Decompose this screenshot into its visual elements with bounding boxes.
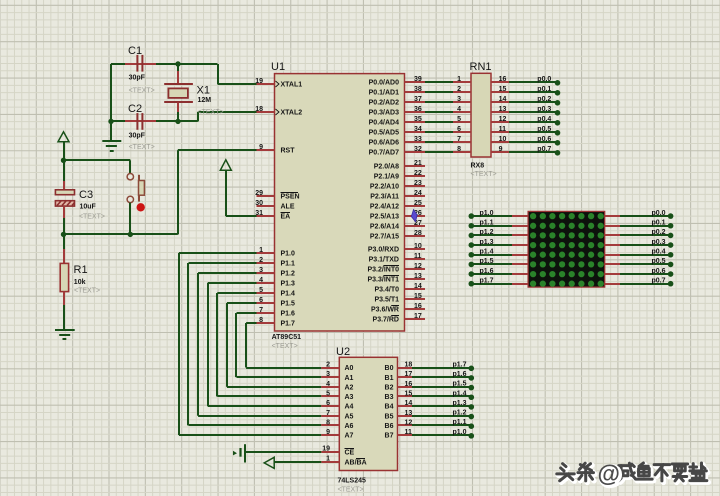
svg-text:4: 4	[457, 106, 461, 113]
svg-text:74LS245: 74LS245	[338, 478, 367, 485]
RN1 pin 14 net p0.2	[491, 96, 560, 106]
U1 pin 14 P3.4/T0	[374, 283, 425, 294]
svg-text:14: 14	[499, 96, 507, 103]
U1 pin 3 P1.2	[257, 267, 296, 278]
svg-text:p0.6: p0.6	[651, 268, 665, 275]
matrix row pin net p1.4	[469, 249, 529, 258]
U2 pin 19 CE	[321, 446, 354, 457]
matrix column pin net p0.0	[605, 210, 674, 219]
svg-text:16: 16	[414, 303, 422, 310]
svg-text:32: 32	[414, 146, 422, 153]
wire P0.0 U1 to RN1 pin 1	[425, 76, 471, 83]
svg-text:U1: U1	[271, 61, 285, 73]
svg-text:p1.4: p1.4	[452, 390, 466, 397]
svg-text:A7: A7	[345, 433, 354, 440]
svg-text:<TEXT>: <TEXT>	[129, 144, 155, 151]
svg-text:p0.7: p0.7	[537, 146, 551, 153]
U1 pin 30 ALE	[255, 200, 295, 211]
svg-text:1: 1	[457, 76, 461, 83]
U1 pin 8 P1.7	[257, 317, 296, 328]
svg-text:6: 6	[457, 126, 461, 133]
U1 pin 9 RST	[257, 144, 296, 155]
svg-text:P3.0/RXD: P3.0/RXD	[368, 247, 399, 254]
RN1 pin 12 net p0.4	[491, 116, 560, 126]
ground (R1)	[55, 305, 75, 339]
svg-text:XTAL1: XTAL1	[281, 82, 303, 89]
svg-text:35: 35	[414, 116, 422, 123]
U1 pin 26 P2.5/A13	[370, 210, 425, 221]
U1 pin 24 P2.3/A11	[370, 190, 425, 201]
svg-text:P2.1/A9: P2.1/A9	[374, 174, 399, 181]
svg-text:2: 2	[326, 362, 330, 369]
svg-text:p0.2: p0.2	[651, 229, 665, 236]
U1 pin 7 P1.6	[257, 307, 296, 318]
svg-text:2: 2	[457, 86, 461, 93]
matrix row pin net p1.6	[469, 268, 529, 277]
U2 pin 9 A7	[321, 429, 353, 440]
svg-text:<TEXT>: <TEXT>	[198, 109, 224, 116]
svg-text:P2.7/A15: P2.7/A15	[370, 234, 399, 241]
U2 pin 12 B6 net p1.1	[385, 419, 475, 430]
svg-text:B5: B5	[385, 413, 394, 420]
junction C2 left	[108, 119, 113, 124]
svg-text:p0.3: p0.3	[651, 239, 665, 246]
svg-text:10: 10	[414, 243, 422, 250]
svg-text:21: 21	[414, 160, 422, 167]
junction C1-X1	[175, 61, 180, 66]
svg-text:14: 14	[414, 283, 422, 290]
U2 pin 13 B5 net p1.2	[385, 410, 475, 421]
matrix column pin net p0.6	[605, 268, 674, 277]
wire P0.4 U1 to RN1 pin 5	[425, 116, 471, 123]
svg-text:p1.0: p1.0	[452, 429, 466, 436]
U2 pin 4 A2	[321, 381, 353, 392]
svg-text:25: 25	[414, 200, 422, 207]
svg-text:5: 5	[259, 287, 263, 294]
svg-text:12: 12	[414, 263, 422, 270]
svg-text:17: 17	[405, 371, 413, 378]
svg-text:p0.5: p0.5	[537, 126, 551, 133]
svg-text:3: 3	[326, 371, 330, 378]
svg-text:23: 23	[414, 180, 422, 187]
U2 pin 2 A0	[321, 362, 353, 373]
U1 pin 35 P0.4/AD4	[369, 116, 425, 127]
junction reset top	[61, 158, 66, 163]
matrix row pin net p1.7	[469, 278, 529, 287]
svg-text:28: 28	[414, 230, 422, 237]
svg-text:16: 16	[499, 76, 507, 83]
svg-text:P3.7/RD: P3.7/RD	[373, 317, 399, 324]
svg-text:CE: CE	[345, 450, 355, 457]
svg-text:15: 15	[405, 390, 413, 397]
svg-text:P3.1/TXD: P3.1/TXD	[369, 257, 399, 264]
svg-text:9: 9	[499, 146, 503, 153]
svg-text:P2.6/A14: P2.6/A14	[370, 224, 399, 231]
svg-text:P1.5: P1.5	[281, 301, 296, 308]
U2 pin 11 B7 net p1.0	[385, 429, 475, 440]
resistor R1	[60, 234, 100, 329]
svg-text:P2.3/A11: P2.3/A11	[370, 194, 399, 201]
U1 pin 27 P2.6/A14	[370, 220, 425, 231]
wire P0.7 U1 to RN1 pin 8	[425, 146, 471, 153]
capacitor C1	[128, 45, 155, 95]
svg-text:13: 13	[499, 106, 507, 113]
svg-text:R1: R1	[74, 264, 88, 276]
svg-text:p0.6: p0.6	[537, 136, 551, 143]
svg-text:A0: A0	[345, 365, 354, 372]
wire C2 net (XTAL2)	[111, 112, 257, 121]
watermark 头条 @咸鱼不要盐	[557, 461, 709, 489]
wire P1.6 to A1	[236, 313, 321, 377]
svg-text:24: 24	[414, 190, 422, 197]
svg-text:29: 29	[255, 190, 263, 197]
power terminal (CE)	[233, 444, 321, 462]
svg-text:B3: B3	[385, 394, 394, 401]
wire P1.2 to A5	[198, 273, 321, 416]
svg-text:33: 33	[414, 136, 422, 143]
svg-text:7: 7	[457, 136, 461, 143]
svg-text:37: 37	[414, 96, 422, 103]
U1 pin 32 P0.7/AD7	[369, 146, 425, 157]
svg-text:U2: U2	[336, 346, 350, 358]
U1 pin 22 P2.1/A9	[374, 170, 425, 181]
svg-text:p1.3: p1.3	[452, 400, 466, 407]
svg-text:C2: C2	[128, 103, 142, 115]
U2 pin 6 A4	[321, 400, 353, 411]
U1 pin 28 P2.7/A15	[370, 230, 425, 241]
svg-text:30pF: 30pF	[129, 75, 146, 82]
svg-text:10k: 10k	[74, 279, 86, 286]
svg-text:ALE: ALE	[281, 204, 295, 211]
svg-text:B4: B4	[385, 404, 394, 411]
svg-text:AB/BA: AB/BA	[345, 460, 367, 467]
svg-text:P1.6: P1.6	[281, 311, 296, 318]
junction button bottom	[128, 232, 133, 237]
svg-text:P0.6/AD6: P0.6/AD6	[369, 140, 399, 147]
svg-text:7: 7	[259, 307, 263, 314]
svg-text:p0.5: p0.5	[651, 258, 665, 265]
svg-text:P0.4/AD4: P0.4/AD4	[369, 120, 399, 127]
matrix column pin net p0.7	[605, 278, 674, 287]
svg-text:8: 8	[326, 419, 330, 426]
svg-text:13: 13	[405, 410, 413, 417]
U1 pin 12 P3.2/INT0	[367, 263, 425, 274]
U1 pin 16 P3.6/WR	[371, 303, 425, 314]
wire P1.4 to A3	[217, 293, 321, 396]
svg-text:p1.5: p1.5	[480, 258, 494, 265]
capacitor C3	[55, 181, 105, 221]
svg-text:P3.3/INT1: P3.3/INT1	[367, 277, 399, 284]
matrix column pin net p0.1	[605, 220, 674, 229]
svg-text:<TEXT>: <TEXT>	[129, 88, 155, 95]
svg-text:2: 2	[259, 257, 263, 264]
svg-text:4: 4	[259, 277, 263, 284]
U1 pin 34 P0.5/AD5	[369, 126, 425, 137]
wire P1.7 to A0	[246, 323, 321, 368]
svg-text:p1.4: p1.4	[480, 249, 494, 256]
svg-text:36: 36	[414, 106, 422, 113]
U1 pin 25 P2.4/A12	[370, 200, 425, 211]
svg-text:A4: A4	[345, 404, 354, 411]
svg-text:A5: A5	[345, 413, 354, 420]
svg-text:P1.4: P1.4	[281, 291, 296, 298]
push button (reset)	[127, 160, 145, 234]
matrix column pin net p0.4	[605, 249, 674, 258]
svg-text:p1.6: p1.6	[452, 371, 466, 378]
U2 pin 15 B3 net p1.4	[385, 390, 475, 401]
RN1 pin 9 net p0.7	[491, 146, 560, 156]
U1 pin 19 XTAL1	[255, 78, 302, 89]
RN1 pin 15 net p0.1	[491, 86, 560, 96]
svg-text:B7: B7	[385, 433, 394, 440]
U1 pin 13 P3.3/INT1	[367, 273, 425, 284]
svg-text:4: 4	[326, 381, 330, 388]
U1 pin 37 P0.2/AD2	[369, 96, 425, 107]
wire P1.0 to A7	[179, 253, 321, 435]
crystal X1	[164, 64, 223, 121]
matrix row pin net p1.0	[469, 210, 529, 219]
svg-text:P1.0: P1.0	[281, 251, 296, 258]
U2 pin 3 A1	[321, 371, 353, 382]
svg-text:39: 39	[414, 76, 422, 83]
svg-text:EA: EA	[281, 214, 291, 221]
svg-text:p1.6: p1.6	[480, 268, 494, 275]
svg-text:18: 18	[405, 362, 413, 369]
wire P0.6 U1 to RN1 pin 7	[425, 136, 471, 143]
svg-text:A6: A6	[345, 423, 354, 430]
svg-text:RN1: RN1	[470, 61, 492, 73]
svg-text:11: 11	[414, 253, 422, 260]
U1 pin 31 EA	[255, 210, 290, 221]
svg-text:30pF: 30pF	[129, 132, 146, 139]
svg-text:P2.5/A13: P2.5/A13	[370, 214, 399, 221]
svg-text:B1: B1	[385, 375, 394, 382]
svg-text:9: 9	[326, 429, 330, 436]
matrix row pin net p1.1	[469, 220, 529, 229]
svg-text:B6: B6	[385, 423, 394, 430]
RN1 pin 10 net p0.6	[491, 136, 560, 146]
svg-text:10uF: 10uF	[80, 203, 97, 210]
svg-text:p1.1: p1.1	[452, 419, 466, 426]
svg-text:P3.4/T0: P3.4/T0	[374, 287, 399, 294]
svg-text:15: 15	[499, 86, 507, 93]
svg-text:19: 19	[322, 446, 330, 453]
svg-text:9: 9	[259, 144, 263, 151]
svg-text:p0.1: p0.1	[651, 220, 665, 227]
wire P0.5 U1 to RN1 pin 6	[425, 126, 471, 133]
svg-text:22: 22	[414, 170, 422, 177]
svg-text:<TEXT>: <TEXT>	[79, 214, 105, 221]
svg-text:p1.0: p1.0	[480, 210, 494, 217]
svg-text:RST: RST	[281, 148, 296, 155]
svg-text:p1.3: p1.3	[480, 239, 494, 246]
svg-text:11: 11	[405, 429, 413, 436]
svg-text:30: 30	[255, 200, 263, 207]
U1 clock input marks	[276, 81, 280, 115]
RN1 pin 16 net p0.0	[491, 76, 560, 86]
ground (oscillator)	[102, 121, 121, 151]
svg-text:11: 11	[499, 126, 507, 133]
svg-text:p0.3: p0.3	[537, 106, 551, 113]
svg-text:P3.6/WR: P3.6/WR	[371, 307, 399, 314]
svg-text:PSEN: PSEN	[281, 194, 300, 201]
capacitor C2	[128, 103, 155, 151]
svg-text:p0.4: p0.4	[537, 116, 551, 123]
U1 pin 39 P0.0/AD0	[369, 76, 425, 87]
svg-text:p0.0: p0.0	[651, 210, 665, 217]
svg-text:7: 7	[326, 410, 330, 417]
svg-text:A2: A2	[345, 384, 354, 391]
svg-text:<TEXT>: <TEXT>	[338, 487, 364, 494]
U1 pin 1 P1.0	[257, 247, 296, 258]
svg-text:<TEXT>: <TEXT>	[272, 343, 298, 350]
svg-text:<TEXT>: <TEXT>	[74, 287, 100, 294]
svg-text:5: 5	[457, 116, 461, 123]
U1 pin 33 P0.6/AD6	[369, 136, 425, 147]
U2 pin 7 A5	[321, 410, 353, 421]
U2 pin 18 B0 net p1.7	[385, 361, 475, 372]
LED matrix body	[528, 211, 605, 287]
svg-text:6: 6	[259, 297, 263, 304]
svg-text:A1: A1	[345, 375, 354, 382]
svg-text:p1.1: p1.1	[480, 220, 494, 227]
svg-text:12: 12	[405, 419, 413, 426]
svg-text:P0.0/AD0: P0.0/AD0	[369, 80, 399, 87]
svg-text:p0.2: p0.2	[537, 96, 551, 103]
svg-text:P2.2/A10: P2.2/A10	[370, 184, 399, 191]
U2 pin 1 AB/BA	[321, 456, 366, 467]
svg-text:P0.1/AD1: P0.1/AD1	[369, 90, 399, 97]
svg-text:P1.3: P1.3	[281, 281, 296, 288]
svg-text:p1.5: p1.5	[452, 381, 466, 388]
U1 pin 5 P1.4	[257, 287, 296, 298]
svg-text:3: 3	[259, 267, 263, 274]
svg-text:p1.7: p1.7	[452, 361, 466, 368]
U2 pin 14 B4 net p1.3	[385, 400, 475, 411]
svg-text:p1.2: p1.2	[480, 229, 494, 236]
matrix column pin net p0.3	[605, 239, 674, 248]
svg-text:19: 19	[255, 78, 263, 85]
svg-text:18: 18	[255, 106, 263, 113]
svg-text:A3: A3	[345, 394, 354, 401]
U2 pin 17 B1 net p1.6	[385, 371, 475, 382]
matrix row pin net p1.2	[469, 229, 529, 238]
svg-text:P0.3/AD3: P0.3/AD3	[369, 110, 399, 117]
svg-text:1: 1	[326, 456, 330, 463]
svg-text:AT89C51: AT89C51	[272, 334, 302, 341]
svg-text:8: 8	[259, 317, 263, 324]
svg-text:1: 1	[259, 247, 263, 254]
svg-text:34: 34	[414, 126, 422, 133]
svg-text:31: 31	[255, 210, 263, 217]
IC U2 74LS245 body	[336, 346, 398, 494]
svg-text:5: 5	[326, 390, 330, 397]
RN1 pin 11 net p0.5	[491, 126, 560, 136]
matrix column pin net p0.5	[605, 258, 674, 267]
wire P0.1 U1 to RN1 pin 2	[425, 86, 471, 93]
IC U1 AT89C51 body	[271, 61, 405, 350]
U1 pin 23 P2.2/A10	[370, 180, 425, 191]
U2 pin 5 A3	[321, 390, 353, 401]
wire C1 net (XTAL1)	[111, 64, 257, 121]
U1 pin 18 XTAL2	[255, 106, 302, 117]
svg-text:10: 10	[499, 136, 507, 143]
svg-text:P1.1: P1.1	[281, 261, 296, 268]
mouse cursor artifact	[411, 210, 417, 222]
wire P0.3 U1 to RN1 pin 4	[425, 106, 471, 113]
wire P1.3 to A4	[208, 283, 322, 406]
svg-text:P2.0/A8: P2.0/A8	[374, 164, 399, 171]
svg-text:15: 15	[414, 293, 422, 300]
svg-text:P0.2/AD2: P0.2/AD2	[369, 100, 399, 107]
svg-text:B0: B0	[385, 365, 394, 372]
U1 pin 36 P0.3/AD3	[369, 106, 425, 117]
power terminal VCC (reset)	[58, 132, 69, 161]
svg-text:@: @	[598, 461, 620, 487]
U1 pin 10 P3.0/RXD	[368, 243, 425, 254]
svg-text:12: 12	[499, 116, 507, 123]
wire P0.2 U1 to RN1 pin 3	[425, 96, 471, 103]
matrix row pin net p1.3	[469, 239, 529, 248]
wire reset node bottom	[64, 150, 257, 234]
svg-text:<TEXT>: <TEXT>	[471, 171, 497, 178]
U2 pin 16 B2 net p1.5	[385, 381, 475, 392]
svg-text:XTAL2: XTAL2	[281, 110, 303, 117]
svg-text:X1: X1	[197, 85, 210, 97]
wire P1.5 to A2	[227, 303, 321, 387]
svg-text:RX8: RX8	[471, 163, 485, 170]
svg-text:P0.7/AD7: P0.7/AD7	[369, 150, 399, 157]
svg-text:C1: C1	[128, 45, 142, 57]
svg-text:p0.7: p0.7	[651, 278, 665, 285]
RN1 pin 13 net p0.3	[491, 106, 560, 116]
svg-text:38: 38	[414, 86, 422, 93]
junction reset bottom-left	[61, 232, 66, 237]
svg-text:p0.0: p0.0	[537, 76, 551, 83]
svg-text:P3.5/T1: P3.5/T1	[374, 297, 399, 304]
svg-text:p0.1: p0.1	[537, 86, 551, 93]
power terminal VCC (EA)	[220, 160, 256, 216]
U1 pin 38 P0.1/AD1	[369, 86, 425, 97]
U1 pin 11 P3.1/TXD	[369, 253, 425, 264]
U1 pin 6 P1.5	[257, 297, 296, 308]
svg-text:P1.7: P1.7	[281, 321, 296, 328]
U1 pin 21 P2.0/A8	[374, 160, 425, 171]
matrix row pin net p1.5	[469, 258, 529, 267]
matrix column pin net p0.2	[605, 229, 674, 238]
svg-text:14: 14	[405, 400, 413, 407]
resistor network RN1 body	[470, 61, 497, 178]
svg-text:3: 3	[457, 96, 461, 103]
U2 pin 8 A6	[321, 419, 353, 430]
svg-text:p1.7: p1.7	[480, 278, 494, 285]
svg-text:17: 17	[414, 313, 422, 320]
U1 pin 2 P1.1	[257, 257, 296, 268]
svg-text:16: 16	[405, 381, 413, 388]
U1 pin 15 P3.5/T1	[374, 293, 425, 304]
svg-text:B2: B2	[385, 384, 394, 391]
svg-text:C3: C3	[79, 189, 93, 201]
direction arrow terminal (AB/BA)	[264, 457, 321, 468]
svg-text:P2.4/A12: P2.4/A12	[370, 204, 399, 211]
U1 pin 17 P3.7/RD	[373, 313, 425, 324]
svg-text:6: 6	[326, 400, 330, 407]
svg-text:p0.4: p0.4	[651, 249, 665, 256]
svg-text:P1.2: P1.2	[281, 271, 296, 278]
U1 pin 29 PSEN	[255, 190, 299, 201]
svg-text:P0.5/AD5: P0.5/AD5	[369, 130, 399, 137]
U1 pin 4 P1.3	[257, 277, 296, 288]
